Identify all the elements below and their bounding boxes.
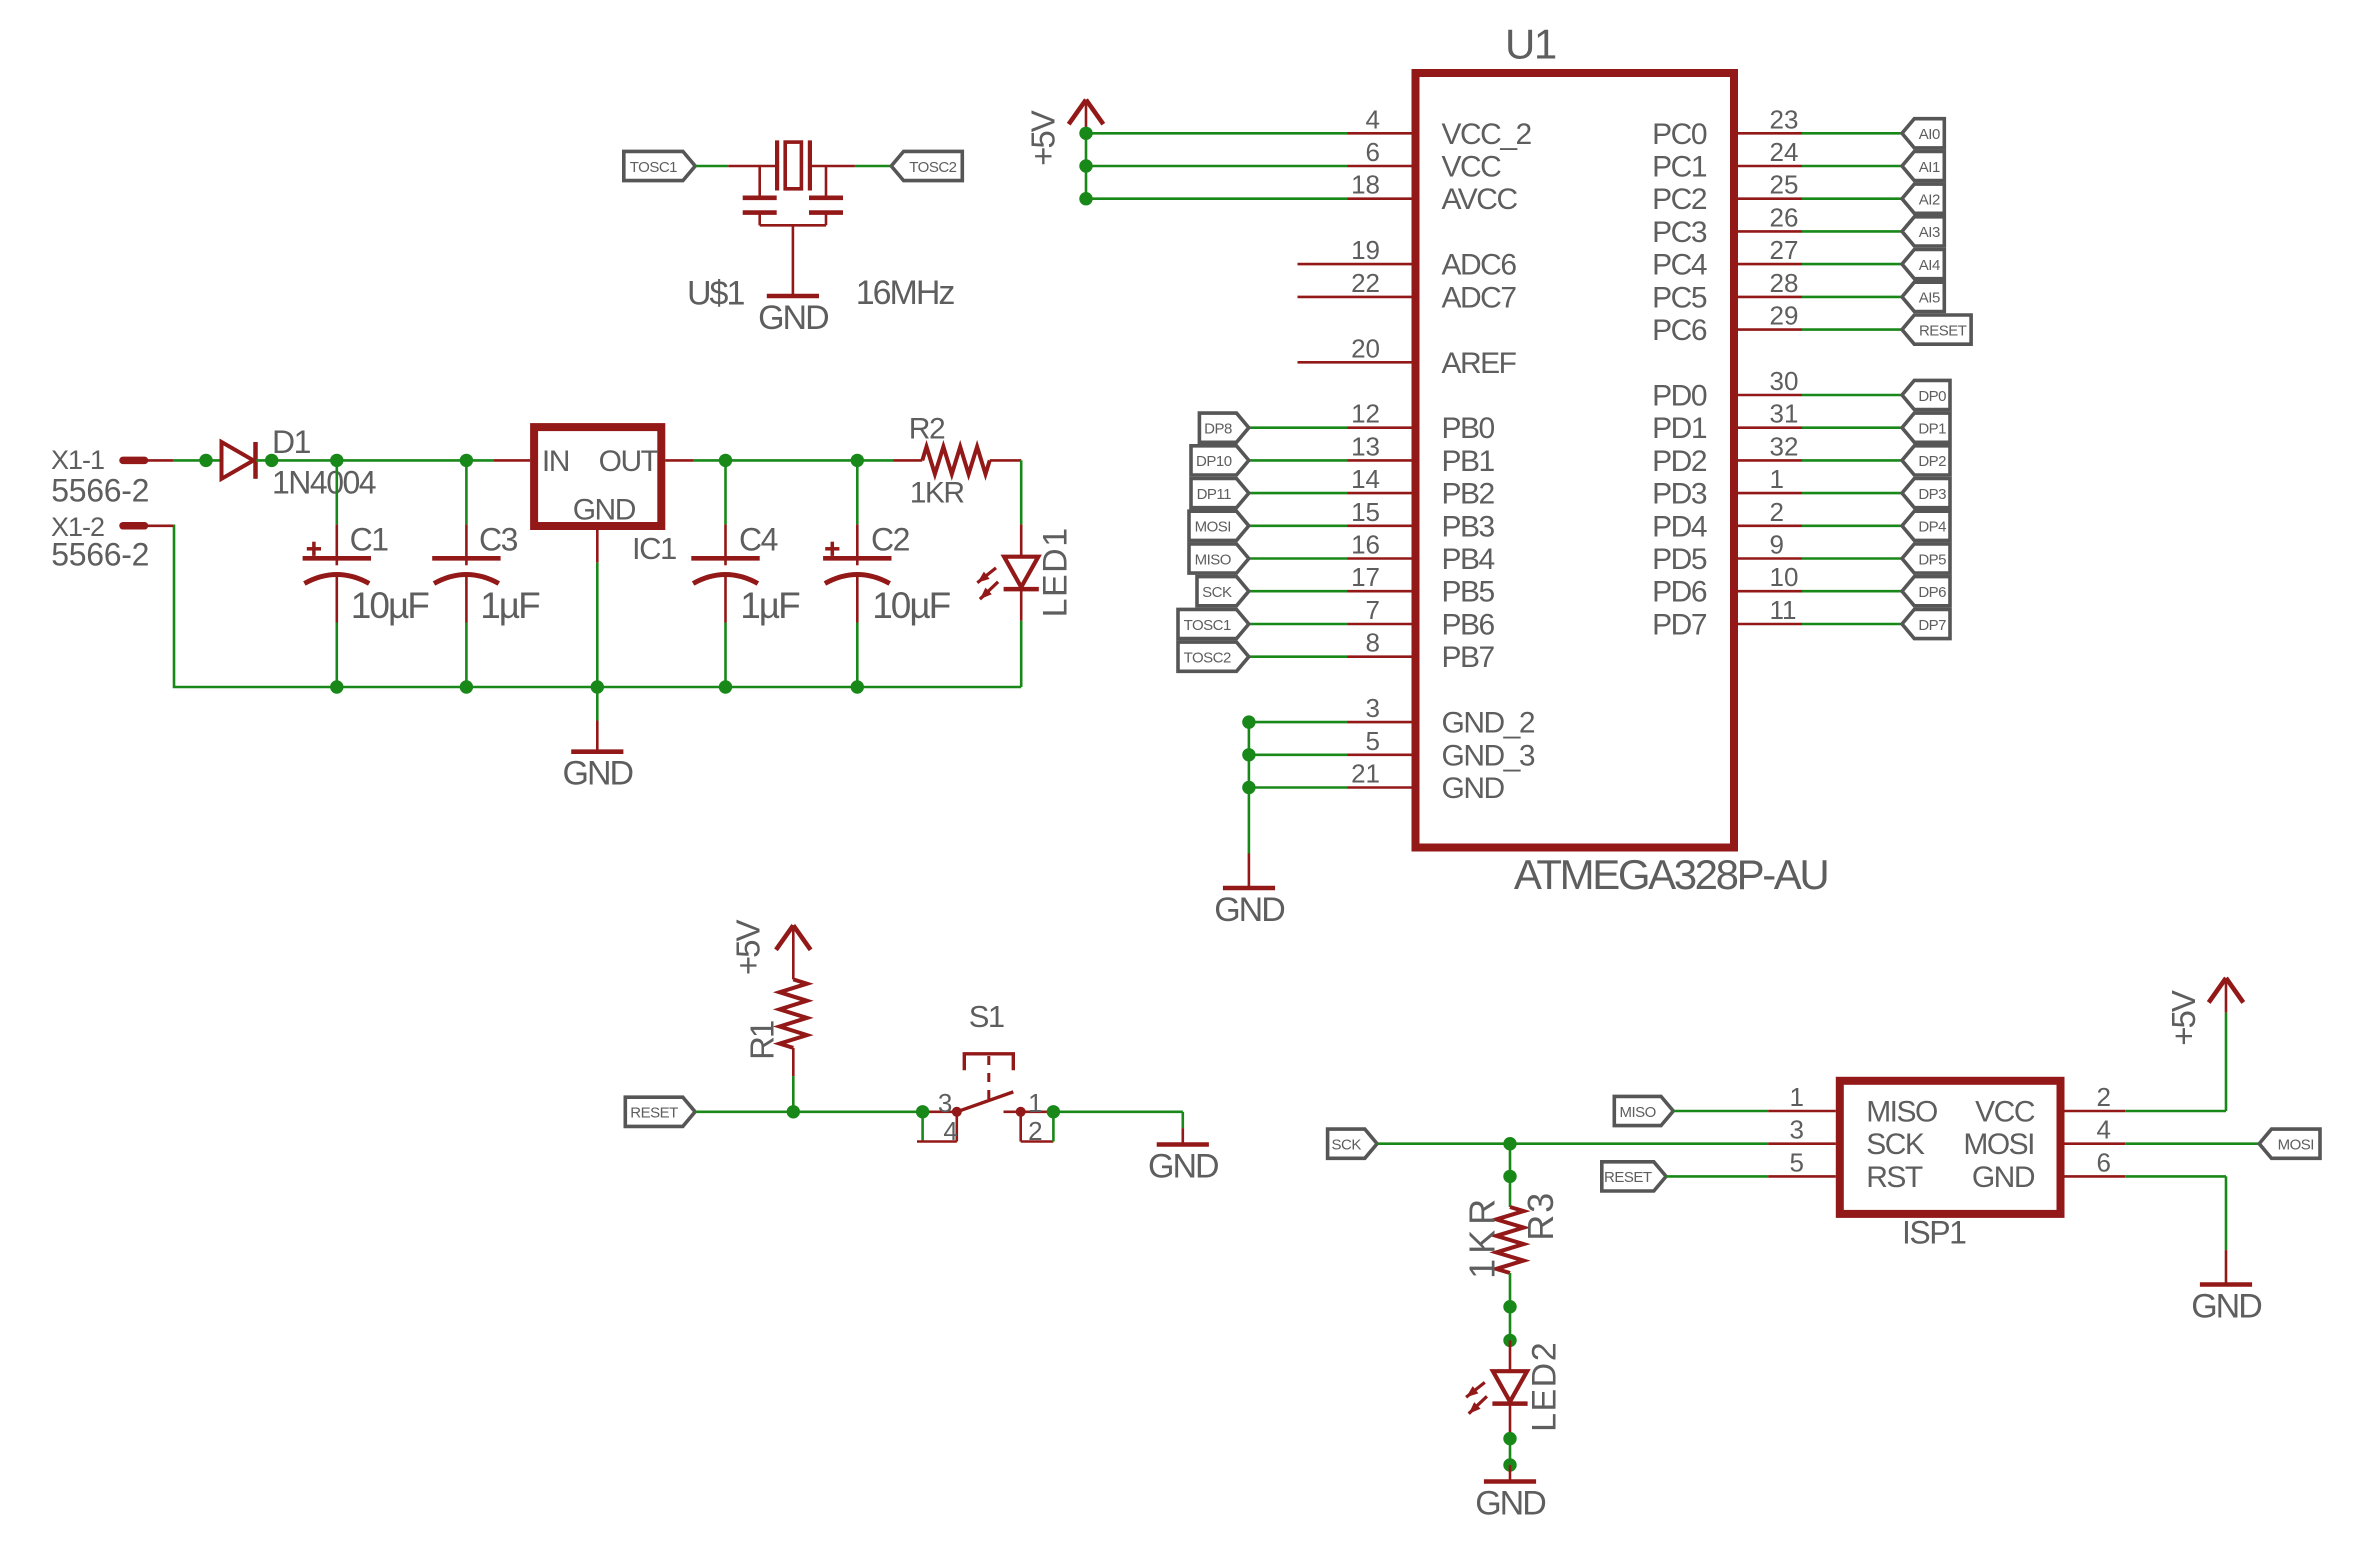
svg-text:MOSI: MOSI xyxy=(1195,519,1231,536)
svg-text:GND: GND xyxy=(758,299,828,337)
svg-text:20: 20 xyxy=(1351,333,1380,363)
svg-text:ADC7: ADC7 xyxy=(1442,281,1517,314)
svg-text:MOSI: MOSI xyxy=(1963,1128,2034,1161)
svg-text:GND: GND xyxy=(1214,891,1284,929)
svg-text:X1-1: X1-1 xyxy=(51,445,104,475)
svg-text:7: 7 xyxy=(1366,595,1380,625)
svg-text:4: 4 xyxy=(1366,104,1380,134)
svg-text:MISO: MISO xyxy=(1195,551,1231,568)
svg-text:PD6: PD6 xyxy=(1652,576,1707,609)
svg-text:C2: C2 xyxy=(871,522,910,558)
svg-text:1µF: 1µF xyxy=(740,585,800,626)
svg-text:9: 9 xyxy=(1770,530,1784,560)
svg-text:14: 14 xyxy=(1351,464,1380,494)
svg-text:4: 4 xyxy=(2097,1115,2111,1145)
svg-text:PD5: PD5 xyxy=(1652,543,1707,576)
svg-text:MOSI: MOSI xyxy=(2278,1137,2314,1154)
svg-text:32: 32 xyxy=(1770,431,1799,461)
svg-text:AI3: AI3 xyxy=(1919,224,1940,241)
svg-text:DP5: DP5 xyxy=(1918,551,1946,568)
svg-text:TOSC1: TOSC1 xyxy=(630,159,677,176)
svg-text:DP6: DP6 xyxy=(1918,584,1946,601)
svg-text:PC0: PC0 xyxy=(1652,118,1707,151)
svg-text:GND: GND xyxy=(2191,1288,2261,1326)
svg-text:PB3: PB3 xyxy=(1442,510,1495,543)
svg-text:GND: GND xyxy=(563,755,633,793)
svg-text:PB5: PB5 xyxy=(1442,576,1495,609)
svg-text:AI1: AI1 xyxy=(1919,159,1940,176)
svg-text:23: 23 xyxy=(1770,104,1799,134)
svg-text:5566-2: 5566-2 xyxy=(51,537,149,573)
svg-text:1: 1 xyxy=(1770,464,1784,494)
svg-text:6: 6 xyxy=(2097,1147,2111,1177)
svg-text:4: 4 xyxy=(943,1116,957,1146)
svg-text:PB4: PB4 xyxy=(1442,543,1495,576)
svg-text:TOSC2: TOSC2 xyxy=(1184,650,1231,667)
svg-text:ADC6: ADC6 xyxy=(1442,249,1517,282)
svg-text:PD3: PD3 xyxy=(1652,478,1707,511)
svg-text:AI0: AI0 xyxy=(1919,126,1940,143)
svg-text:MISO: MISO xyxy=(1866,1096,1937,1129)
svg-text:IN: IN xyxy=(542,445,569,478)
svg-text:1: 1 xyxy=(1028,1088,1042,1118)
svg-text:15: 15 xyxy=(1351,497,1380,527)
svg-text:PC1: PC1 xyxy=(1652,151,1707,184)
svg-text:1µF: 1µF xyxy=(480,585,540,626)
svg-text:RESET: RESET xyxy=(630,1105,678,1122)
svg-text:IC1: IC1 xyxy=(632,531,676,566)
svg-text:1KR: 1KR xyxy=(910,477,965,510)
svg-text:VCC_2: VCC_2 xyxy=(1442,118,1532,151)
svg-text:10µF: 10µF xyxy=(351,585,429,626)
svg-text:3: 3 xyxy=(938,1088,952,1118)
svg-text:PC3: PC3 xyxy=(1652,216,1707,249)
svg-text:12: 12 xyxy=(1351,399,1380,429)
svg-text:PD0: PD0 xyxy=(1652,380,1707,413)
svg-text:10µF: 10µF xyxy=(872,585,950,626)
svg-text:1: 1 xyxy=(1790,1082,1804,1112)
svg-text:VCC: VCC xyxy=(1975,1096,2035,1129)
svg-text:17: 17 xyxy=(1351,562,1380,592)
svg-text:PC4: PC4 xyxy=(1652,249,1707,282)
svg-text:VCC: VCC xyxy=(1442,151,1502,184)
svg-text:28: 28 xyxy=(1770,268,1799,298)
svg-text:PD7: PD7 xyxy=(1652,609,1707,642)
svg-text:3: 3 xyxy=(1366,693,1380,723)
svg-text:DP8: DP8 xyxy=(1204,421,1232,438)
svg-text:SCK: SCK xyxy=(1332,1137,1362,1154)
svg-text:GND: GND xyxy=(1148,1148,1218,1186)
svg-text:ISP1: ISP1 xyxy=(1902,1215,1966,1251)
svg-text:DP11: DP11 xyxy=(1197,486,1232,503)
svg-text:29: 29 xyxy=(1770,301,1799,331)
svg-text:5: 5 xyxy=(1790,1147,1804,1177)
svg-text:DP1: DP1 xyxy=(1918,421,1946,438)
svg-text:GND_2: GND_2 xyxy=(1442,707,1535,740)
svg-text:31: 31 xyxy=(1770,399,1799,429)
svg-text:OUT: OUT xyxy=(599,445,659,478)
svg-text:AI4: AI4 xyxy=(1919,257,1940,274)
svg-text:1N4004: 1N4004 xyxy=(272,464,376,500)
svg-text:C1: C1 xyxy=(350,522,389,558)
svg-text:GND: GND xyxy=(573,493,636,526)
svg-text:MISO: MISO xyxy=(1620,1104,1656,1121)
svg-text:AVCC: AVCC xyxy=(1442,183,1518,216)
svg-text:GND: GND xyxy=(1972,1161,2035,1194)
svg-text:PD4: PD4 xyxy=(1652,510,1707,543)
svg-text:24: 24 xyxy=(1770,137,1799,167)
svg-text:27: 27 xyxy=(1770,235,1799,265)
svg-text:+5V: +5V xyxy=(729,919,766,975)
svg-text:S1: S1 xyxy=(969,999,1004,1034)
svg-text:5: 5 xyxy=(1366,726,1380,756)
svg-text:PC2: PC2 xyxy=(1652,183,1707,216)
svg-text:TOSC2: TOSC2 xyxy=(909,159,956,176)
svg-text:GND: GND xyxy=(1475,1485,1545,1523)
svg-text:U1: U1 xyxy=(1505,20,1556,67)
svg-text:13: 13 xyxy=(1351,431,1380,461)
svg-text:22: 22 xyxy=(1351,268,1380,298)
svg-text:C4: C4 xyxy=(739,522,778,558)
svg-text:30: 30 xyxy=(1770,366,1799,396)
svg-text:DP4: DP4 xyxy=(1918,519,1946,536)
svg-text:D1: D1 xyxy=(272,424,311,460)
svg-text:U$1: U$1 xyxy=(687,275,744,313)
svg-text:21: 21 xyxy=(1351,759,1380,789)
svg-text:PB0: PB0 xyxy=(1442,412,1495,445)
svg-text:LED1: LED1 xyxy=(1037,526,1075,617)
svg-text:11: 11 xyxy=(1770,595,1797,625)
svg-text:AI5: AI5 xyxy=(1919,290,1940,307)
svg-text:+5V: +5V xyxy=(2165,990,2202,1046)
svg-text:PD2: PD2 xyxy=(1652,445,1707,478)
svg-text:LED2: LED2 xyxy=(1526,1341,1564,1432)
svg-text:ATMEGA328P-AU: ATMEGA328P-AU xyxy=(1514,851,1828,898)
svg-text:+5V: +5V xyxy=(1025,110,1062,166)
svg-text:16MHz: 16MHz xyxy=(856,274,955,312)
svg-text:1KR: 1KR xyxy=(1461,1194,1502,1279)
svg-text:DP7: DP7 xyxy=(1918,617,1946,634)
svg-text:19: 19 xyxy=(1351,235,1380,265)
svg-text:5566-2: 5566-2 xyxy=(51,473,149,509)
svg-text:RESET: RESET xyxy=(1919,322,1967,339)
svg-text:PD1: PD1 xyxy=(1652,412,1707,445)
svg-text:R1: R1 xyxy=(744,1021,781,1060)
svg-text:PB6: PB6 xyxy=(1442,609,1495,642)
svg-text:GND: GND xyxy=(1442,772,1505,805)
svg-text:PC6: PC6 xyxy=(1652,314,1707,347)
svg-text:C3: C3 xyxy=(479,522,518,558)
svg-text:AI2: AI2 xyxy=(1919,192,1940,209)
svg-text:TOSC1: TOSC1 xyxy=(1184,617,1231,634)
svg-text:3: 3 xyxy=(1790,1115,1804,1145)
svg-text:18: 18 xyxy=(1351,170,1380,200)
svg-text:2: 2 xyxy=(1028,1116,1042,1146)
svg-text:DP2: DP2 xyxy=(1918,453,1946,470)
svg-text:2: 2 xyxy=(2097,1082,2111,1112)
svg-text:SCK: SCK xyxy=(1202,584,1232,601)
svg-text:DP3: DP3 xyxy=(1918,486,1946,503)
svg-text:R3: R3 xyxy=(1520,1191,1561,1241)
svg-text:8: 8 xyxy=(1366,628,1380,658)
svg-text:10: 10 xyxy=(1770,562,1799,592)
svg-text:DP0: DP0 xyxy=(1918,388,1946,405)
svg-text:RST: RST xyxy=(1866,1161,1923,1194)
svg-text:AREF: AREF xyxy=(1442,347,1517,380)
svg-text:DP10: DP10 xyxy=(1196,453,1232,470)
svg-text:GND_3: GND_3 xyxy=(1442,739,1535,772)
svg-text:PB1: PB1 xyxy=(1442,445,1495,478)
svg-text:16: 16 xyxy=(1351,530,1380,560)
svg-text:25: 25 xyxy=(1770,170,1799,200)
svg-text:PC5: PC5 xyxy=(1652,281,1707,314)
svg-text:RESET: RESET xyxy=(1604,1169,1652,1186)
svg-text:2: 2 xyxy=(1770,497,1784,527)
svg-text:6: 6 xyxy=(1366,137,1380,167)
svg-text:SCK: SCK xyxy=(1866,1128,1925,1161)
svg-text:26: 26 xyxy=(1770,202,1799,232)
svg-text:PB7: PB7 xyxy=(1442,641,1495,674)
svg-text:R2: R2 xyxy=(909,413,945,446)
svg-text:PB2: PB2 xyxy=(1442,478,1495,511)
